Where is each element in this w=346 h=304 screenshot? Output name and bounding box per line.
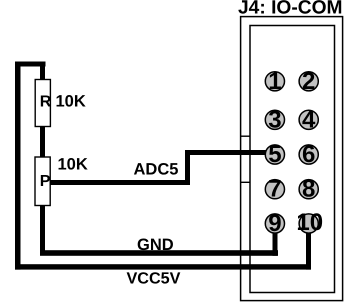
svg-text:5: 5: [268, 141, 281, 168]
svg-text:4: 4: [302, 106, 316, 133]
wire GND horizontal: [40, 250, 278, 256]
svg-text:3: 3: [268, 106, 281, 133]
wire VCC5V horizontal: [15, 264, 311, 269]
wire R bottom to P top: [40, 127, 45, 158]
svg-text:ADC5: ADC5: [134, 161, 179, 179]
wire R top drop: [40, 64, 45, 80]
wire GND vertical to pin 9: [273, 224, 278, 256]
wire top horizontal (R to VCC rail): [15, 62, 46, 67]
wire P bottom drop: [40, 205, 45, 255]
pin 7: [265, 176, 284, 203]
resistor R body: [35, 80, 50, 127]
svg-text:J4: IO-COM: J4: IO-COM: [238, 0, 342, 19]
pin 4: [299, 106, 318, 133]
svg-text:VCC5V: VCC5V: [127, 270, 181, 288]
svg-text:10K: 10K: [56, 93, 86, 111]
svg-text:R: R: [40, 94, 52, 111]
connector key notch upper tick: [240, 135, 250, 137]
svg-text:10: 10: [296, 209, 323, 236]
svg-text:7: 7: [268, 176, 281, 203]
pin 5: [265, 141, 284, 168]
pin 8: [299, 176, 318, 203]
svg-text:P: P: [40, 173, 51, 190]
wire ADC5 vertical step: [185, 150, 190, 185]
wire VCC5V vertical to pin 10: [306, 224, 311, 270]
wire ADC5 upper horizontal to pin 5: [185, 150, 275, 155]
connector J4 outer body: [241, 17, 343, 301]
wire ADC5 lower horizontal from P: [50, 180, 190, 185]
pin 9: [265, 210, 284, 237]
potentiometer P body: [35, 157, 50, 206]
connector key notch lower tick: [240, 181, 250, 183]
pin 10: [296, 209, 323, 236]
pin 6: [299, 141, 318, 168]
pin 3: [265, 106, 284, 133]
svg-text:9: 9: [268, 210, 281, 237]
connector J4 inner body: [250, 26, 335, 293]
svg-text:10K: 10K: [58, 156, 88, 174]
pin 1: [265, 68, 284, 95]
svg-text:2: 2: [302, 68, 315, 95]
svg-text:6: 6: [302, 141, 315, 168]
pin 2: [299, 68, 318, 95]
svg-text:GND: GND: [137, 236, 174, 254]
svg-text:8: 8: [302, 176, 315, 203]
wire left vertical VCC rail: [15, 62, 21, 270]
svg-text:1: 1: [268, 68, 281, 95]
